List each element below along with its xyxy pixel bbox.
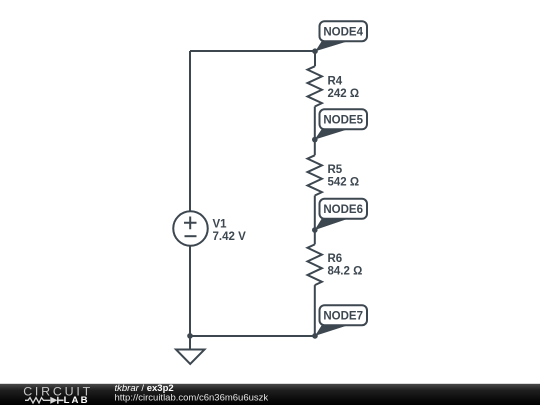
resistor R6 zigzag [308, 244, 322, 285]
svg-text:http://circuitlab.com/c6n36m6u: http://circuitlab.com/c6n36m6u6uszk [115, 393, 269, 404]
wire between R5 and NODE6 [314, 196, 316, 231]
node label box NODE7 [320, 305, 368, 325]
footer black bar [0, 384, 540, 405]
svg-text:542 Ω: 542 Ω [328, 177, 360, 189]
V1 minus sign [185, 235, 197, 237]
node label box NODE4 [320, 21, 368, 41]
wire between NODE5 and R5 [314, 140, 316, 156]
svg-text:242 Ω: 242 Ω [328, 88, 360, 100]
svg-text:R4: R4 [328, 75, 343, 87]
node label box NODE6 [320, 199, 368, 219]
callout tail NODE5 [315, 129, 350, 140]
junction dot NODE7 [312, 333, 318, 339]
voltage source V1 circle [173, 211, 208, 246]
logo diode [50, 397, 57, 404]
svg-text:R6: R6 [328, 253, 343, 265]
junction dot ground node [187, 333, 193, 339]
svg-text:7.42 V: 7.42 V [213, 231, 247, 243]
node label box NODE5 [320, 109, 368, 129]
ground stem wire [189, 336, 191, 350]
wire left vertical (bottom) [189, 246, 191, 336]
resistor R4 zigzag [308, 66, 322, 106]
svg-text:NODE5: NODE5 [323, 115, 363, 127]
svg-text:R5: R5 [328, 164, 343, 176]
resistor R5 zigzag [308, 155, 322, 195]
svg-text:NODE7: NODE7 [323, 311, 363, 323]
V1 plus sign [184, 217, 197, 230]
callout tail NODE7 [315, 325, 350, 336]
junction dot NODE6 [312, 227, 318, 233]
callout tail NODE4 [315, 41, 349, 52]
wire between R4 and NODE5 [314, 107, 316, 140]
wire between NODE6 and R6 [314, 230, 316, 244]
svg-text:NODE4: NODE4 [323, 27, 363, 39]
junction dot node A (top right, NODE4) [312, 48, 318, 54]
ground symbol triangle [176, 350, 205, 365]
callout tail NODE6 [315, 218, 350, 230]
svg-text:V1: V1 [213, 218, 228, 230]
wire left vertical (top) [189, 51, 191, 212]
logo resistor zigzag [25, 398, 50, 403]
svg-text:84.2 Ω: 84.2 Ω [328, 266, 363, 278]
wire bottom horizontal [190, 335, 315, 337]
wire below R6 to bottom rail [314, 285, 316, 336]
wire top horizontal [190, 50, 315, 52]
svg-text:NODE6: NODE6 [323, 204, 363, 216]
wire right rail above R4 [314, 51, 316, 66]
junction dot NODE5 [312, 137, 318, 143]
svg-text:LAB: LAB [64, 395, 90, 405]
